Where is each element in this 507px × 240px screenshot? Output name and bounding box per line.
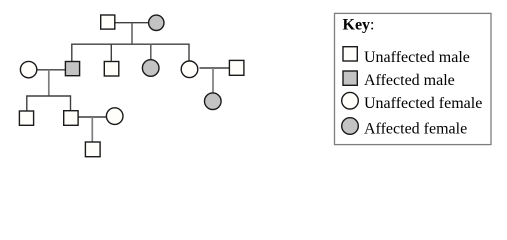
wire: gen3 marriage line	[79, 116, 107, 118]
wire: drop to affected male II-2	[71, 44, 73, 62]
wire: gen3 couple descent	[91, 117, 93, 142]
unaffected male III-1	[19, 111, 33, 125]
affected male II-2	[65, 62, 79, 76]
unaffected male II-3	[104, 62, 119, 77]
key box frame	[335, 13, 492, 144]
wire: gen2 right couple descent	[212, 68, 214, 93]
unaffected female III-3 (spouse)	[106, 108, 123, 125]
wire: drop to male III-1	[26, 95, 28, 111]
unaffected male II-6 (right spouse)	[229, 60, 244, 75]
wire: drop to unaffected male II-3	[110, 44, 112, 62]
svg-text:Affected female: Affected female	[364, 120, 467, 137]
unaffected male I-1	[101, 15, 115, 29]
wire: gen1 descent drop	[131, 23, 133, 45]
affected female I-2	[149, 15, 164, 30]
wire: gen2 left marriage line	[37, 69, 65, 71]
wire: gen2 left couple descent	[48, 70, 50, 96]
key legend circle: affected female	[342, 118, 359, 135]
wire: gen2 sibship line	[72, 43, 189, 45]
wire: gen3 sibship line	[27, 95, 71, 97]
wire: gen2 right marriage line	[200, 67, 230, 69]
unaffected male IV-1	[85, 142, 100, 157]
unaffected female II-5	[181, 61, 198, 78]
key legend circle: unaffected female	[342, 92, 359, 109]
key legend square: affected male	[343, 71, 357, 85]
affected female III-4 (right child)	[205, 93, 222, 110]
wire: drop to unaffected female II-5	[188, 44, 190, 62]
key legend square: unaffected male	[343, 47, 357, 61]
svg-text:Affected male: Affected male	[364, 72, 455, 89]
wire: drop to male III-2	[70, 95, 72, 110]
unaffected female II-1 (left spouse)	[20, 61, 36, 77]
svg-text:Key:: Key:	[343, 17, 375, 34]
unaffected male III-2	[64, 111, 78, 126]
svg-text:Unaffected male: Unaffected male	[364, 49, 470, 66]
affected female II-4	[142, 60, 159, 77]
svg-text:Unaffected female: Unaffected female	[364, 95, 482, 112]
wire: drop to affected female II-4	[150, 44, 152, 60]
wire: gen1 marriage line	[116, 22, 149, 24]
